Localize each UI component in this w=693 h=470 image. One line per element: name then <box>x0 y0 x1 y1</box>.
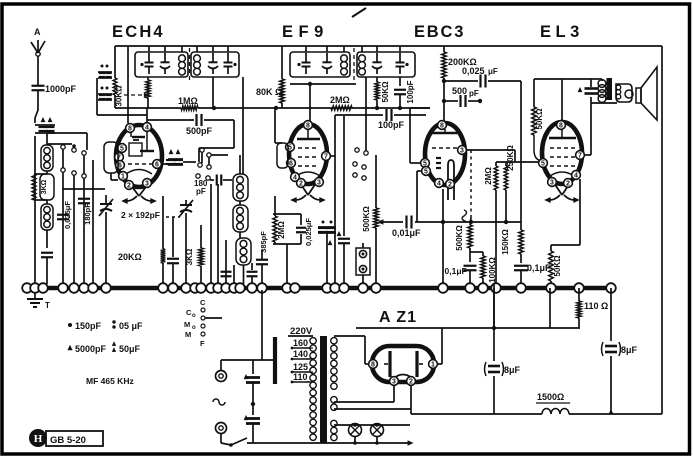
capacitor 180pF osc <box>194 175 232 197</box>
svg-text:5000pF: 5000pF <box>75 344 107 354</box>
capacitor 0,025uF antenna <box>57 201 72 229</box>
svg-text:6: 6 <box>155 162 159 169</box>
IF transformer T1 box B <box>190 46 240 80</box>
label 2 x 192pF <box>121 210 160 220</box>
svg-text:3KΩ: 3KΩ <box>185 248 194 265</box>
wire T1 secondary down <box>212 77 243 174</box>
resistor 50K ohm T2 <box>375 77 390 110</box>
svg-text:150pF: 150pF <box>75 321 102 331</box>
svg-text:8μF: 8μF <box>621 345 638 355</box>
coil oscillator L5 <box>236 238 251 284</box>
wire EF9 left bracket <box>275 108 288 168</box>
svg-text:8: 8 <box>128 126 132 133</box>
svg-text:2: 2 <box>566 181 570 188</box>
svg-text:125: 125 <box>293 362 308 372</box>
wire HT B+ rail <box>356 284 580 330</box>
antenna A <box>31 27 45 85</box>
resistor 30K ohm <box>115 77 151 108</box>
wire T2 grid line <box>290 82 356 121</box>
svg-text:05 μF: 05 μF <box>119 321 143 331</box>
wire ECH4 pin connections <box>97 46 147 180</box>
svg-text:50KΩ: 50KΩ <box>535 108 544 130</box>
svg-text:H: H <box>34 433 43 445</box>
label AZ1 <box>379 309 417 326</box>
svg-text:8: 8 <box>440 123 444 130</box>
resistor 2M ohm osc grid <box>273 196 301 284</box>
IF transformer T2 box A <box>290 46 350 77</box>
svg-text:30KΩ: 30KΩ <box>115 85 124 107</box>
svg-text:50KΩ: 50KΩ <box>381 81 390 103</box>
capacitor 8uF 2 <box>602 288 638 414</box>
ground symbol <box>27 293 50 310</box>
capacitor 180pF antenna <box>78 199 92 225</box>
svg-text:100pF: 100pF <box>406 80 415 103</box>
svg-text:o: o <box>192 313 196 319</box>
resistor 3K ohm osc <box>185 225 203 284</box>
wire HT top rail <box>115 46 662 414</box>
svg-text:2: 2 <box>448 182 452 189</box>
svg-text:8: 8 <box>371 362 375 369</box>
resistor 50K ohm grid EL3 <box>532 79 562 161</box>
svg-text:2MΩ: 2MΩ <box>484 167 493 185</box>
coil antenna L2 <box>41 200 53 248</box>
wire EBC3 pin5 bracket <box>410 108 430 222</box>
svg-text:3: 3 <box>550 180 554 187</box>
capacitor 0,025uF coupling <box>444 66 521 88</box>
wire AZ1 anode right <box>437 328 442 364</box>
wire grid rail AVC y108 <box>113 46 430 108</box>
jack pickup terminals <box>356 243 370 284</box>
wire EBC3 AVC dashed <box>462 150 515 222</box>
resistor 80K ohm <box>256 46 284 110</box>
svg-text:M: M <box>184 320 190 329</box>
resistor 2M ohm det <box>484 162 539 284</box>
svg-text:6: 6 <box>289 161 293 168</box>
legend MF 465 <box>86 376 134 386</box>
resistor 150K ohm <box>501 222 523 255</box>
svg-text:160: 160 <box>293 338 308 348</box>
svg-text:500KΩ: 500KΩ <box>362 206 371 232</box>
svg-text:A: A <box>34 27 41 37</box>
symbol AC <box>213 399 225 405</box>
capacitor osc grid pair <box>166 149 196 165</box>
capacitor mains 2 <box>244 415 260 443</box>
svg-text:1500Ω: 1500Ω <box>537 392 564 402</box>
svg-text:EF9: EF9 <box>282 23 329 41</box>
wire EBC3 cathode down <box>442 189 444 288</box>
svg-text:μF: μF <box>488 67 498 76</box>
resistor 110 ohm <box>550 288 608 328</box>
svg-text:150KΩ: 150KΩ <box>501 229 510 255</box>
label 220V <box>290 326 313 337</box>
label EL3 <box>540 23 584 41</box>
wire EL3 grid top <box>561 79 563 121</box>
capacitor 0,025uF EF9 <box>296 214 313 246</box>
switch tone contacts <box>184 298 222 348</box>
resistor 200K ohm <box>442 46 477 121</box>
power transformer T4 <box>310 336 337 443</box>
svg-text:M: M <box>185 330 191 339</box>
legend 05uF <box>112 320 143 331</box>
svg-text:5: 5 <box>541 161 545 168</box>
svg-text:5: 5 <box>424 169 428 176</box>
resistor 3K ohm antenna <box>32 171 54 200</box>
svg-text:0,1μF: 0,1μF <box>445 266 467 276</box>
svg-text:3: 3 <box>460 148 464 155</box>
svg-text:140: 140 <box>293 349 308 359</box>
wire osc chain verticals <box>211 184 234 284</box>
svg-text:1000pF: 1000pF <box>45 84 77 94</box>
wire EL3 cathode net <box>551 179 580 245</box>
wire bottom rail <box>411 409 662 414</box>
capacitor mains 1 <box>244 360 260 415</box>
svg-text:pF: pF <box>469 89 479 98</box>
ground bus <box>27 286 611 291</box>
capacitor 1000pF <box>32 84 77 123</box>
svg-text:EL3: EL3 <box>540 23 584 41</box>
resistor 500K ohm <box>455 218 472 262</box>
potentiometer 500K ohm volume <box>362 155 385 284</box>
legend 50uF <box>112 341 141 354</box>
capacitor 0,1uF 1 <box>445 266 477 284</box>
speaker <box>636 67 657 120</box>
svg-text:3: 3 <box>145 181 149 188</box>
svg-text:0,01μF: 0,01μF <box>392 228 421 238</box>
svg-text:C: C <box>200 298 206 307</box>
label EF9 <box>282 23 329 41</box>
svg-text:7: 7 <box>324 154 328 161</box>
resistor 1M ohm <box>178 96 198 110</box>
label ECH4 <box>112 23 165 41</box>
tube EL3 V4 <box>539 121 585 203</box>
capacitor near bus 2 <box>247 263 258 284</box>
choke 1500 ohm <box>536 392 570 414</box>
wire chassis drop to mains <box>221 290 273 360</box>
bus junction nodes <box>22 283 616 293</box>
svg-text:7: 7 <box>578 153 582 160</box>
label EBC3 <box>414 23 465 41</box>
resistor 2M ohm <box>330 95 352 110</box>
resistor 20K ohm <box>118 196 165 284</box>
pilot lamps <box>322 423 414 446</box>
legend 5000pF <box>67 344 106 354</box>
capacitor antenna coupling pair <box>35 117 55 133</box>
capacitor grid pair upper <box>98 65 112 79</box>
svg-text:4: 4 <box>145 125 149 132</box>
svg-text:A Z1: A Z1 <box>379 309 417 326</box>
svg-text:o: o <box>192 325 196 331</box>
svg-text:1MΩ: 1MΩ <box>178 96 198 106</box>
svg-text:2MΩ: 2MΩ <box>330 95 350 105</box>
capacitor 385pF <box>256 231 268 284</box>
IF transformer T2 box B <box>354 46 415 80</box>
capacitor 100pF horiz <box>335 109 426 130</box>
capacitor EF9 cathode pair <box>318 221 336 285</box>
wire AZ1 anode left <box>334 336 369 364</box>
svg-text:8: 8 <box>559 123 563 130</box>
svg-text:110 Ω: 110 Ω <box>584 301 608 311</box>
svg-text:4: 4 <box>437 181 441 188</box>
svg-text:4: 4 <box>574 173 578 180</box>
switch oscillator contacts <box>196 148 234 180</box>
svg-text:2: 2 <box>409 379 413 386</box>
variable capacitor tuning gang 1 <box>99 195 113 284</box>
capacitor output tone <box>562 79 598 94</box>
coil oscillator L3 <box>233 155 248 201</box>
wire antenna down <box>34 136 36 284</box>
capacitor grid pair lower <box>98 87 112 101</box>
wire 0,025 junction down <box>520 81 522 222</box>
capacitor 0,01uF <box>385 216 521 239</box>
svg-text:2MΩ: 2MΩ <box>277 221 286 239</box>
capacitor 0,1uF 2 <box>514 254 551 284</box>
switch pickup contacts <box>353 77 368 180</box>
coil oscillator L4 <box>233 201 248 238</box>
wire 220V underline <box>288 335 313 337</box>
capacitor 100pF vert <box>394 77 415 110</box>
svg-text:GB 5-20: GB 5-20 <box>50 435 86 446</box>
svg-text:500pF: 500pF <box>186 126 213 136</box>
IF transformer T1 box A <box>135 46 188 77</box>
svg-text:2 × 192pF: 2 × 192pF <box>121 210 160 220</box>
capacitor 500pF osc <box>147 114 234 148</box>
output transformer T3 <box>591 78 633 102</box>
wire EF9 plate <box>330 115 335 284</box>
svg-text:2: 2 <box>127 183 131 190</box>
legend 150pF <box>68 321 102 331</box>
terminal mains bottom <box>216 423 227 444</box>
svg-text:2: 2 <box>299 181 303 188</box>
capacitor 500pF det <box>444 86 482 107</box>
transformer taps <box>291 338 313 383</box>
tube EBC3 V3 <box>421 121 467 200</box>
capacitor volume bottom <box>337 116 350 284</box>
switch band contacts <box>47 133 105 189</box>
svg-text:3KΩ: 3KΩ <box>41 179 48 194</box>
capacitor near bus 1 <box>221 272 232 277</box>
svg-text:8: 8 <box>306 123 310 130</box>
coil antenna L1 <box>41 133 53 171</box>
svg-text:EBC3: EBC3 <box>414 23 465 41</box>
svg-text:500: 500 <box>452 86 467 96</box>
svg-text:3: 3 <box>317 180 321 187</box>
svg-text:20KΩ: 20KΩ <box>118 252 142 262</box>
electrode mains bar <box>273 337 277 384</box>
tube AZ1 V5 <box>369 346 438 386</box>
variable capacitor tuning gang 2 <box>179 200 193 284</box>
svg-text:ECH4: ECH4 <box>112 23 165 41</box>
wire AZ1 filament <box>334 385 411 414</box>
resistor 50K ohm cathode <box>549 245 562 284</box>
capacitor osc cathode <box>167 217 179 284</box>
switch mains <box>221 438 322 447</box>
resistor 100K ohm <box>470 252 497 284</box>
wire EL3 plate <box>584 97 617 155</box>
svg-text:MF 465 KHz: MF 465 KHz <box>86 376 134 386</box>
capacitor antenna bottom <box>41 253 53 284</box>
svg-text:50μF: 50μF <box>119 344 141 354</box>
svg-text:5: 5 <box>120 146 124 153</box>
svg-text:100pF: 100pF <box>378 120 405 130</box>
svg-text:500KΩ: 500KΩ <box>455 225 464 251</box>
svg-text:3: 3 <box>392 379 396 386</box>
resistor 250K ohm <box>504 145 515 222</box>
svg-text:F: F <box>200 339 205 348</box>
capacitor 8uF 1 <box>485 288 521 414</box>
logo badge <box>29 429 47 447</box>
terminal mains top <box>216 360 227 382</box>
svg-text:80K Ω: 80K Ω <box>256 87 282 97</box>
tube ECH4 V1 <box>115 123 162 204</box>
wire gang link dashes <box>166 216 180 218</box>
svg-text:385pF: 385pF <box>259 231 268 253</box>
svg-text:1: 1 <box>121 174 125 181</box>
logo box GB 5-20 <box>46 431 103 446</box>
svg-text:pF: pF <box>196 187 206 196</box>
svg-text:8μF: 8μF <box>504 365 521 375</box>
svg-text:T: T <box>45 301 50 310</box>
stray mark <box>352 8 366 17</box>
wire ECH4 triode grid <box>161 163 168 165</box>
svg-text:110: 110 <box>293 372 308 382</box>
svg-text:0,025μF: 0,025μF <box>63 201 72 229</box>
tube EF9 V2 <box>286 121 331 203</box>
wire switch to bus <box>63 160 93 284</box>
svg-text:1: 1 <box>431 362 435 369</box>
svg-text:180pF: 180pF <box>83 203 92 225</box>
